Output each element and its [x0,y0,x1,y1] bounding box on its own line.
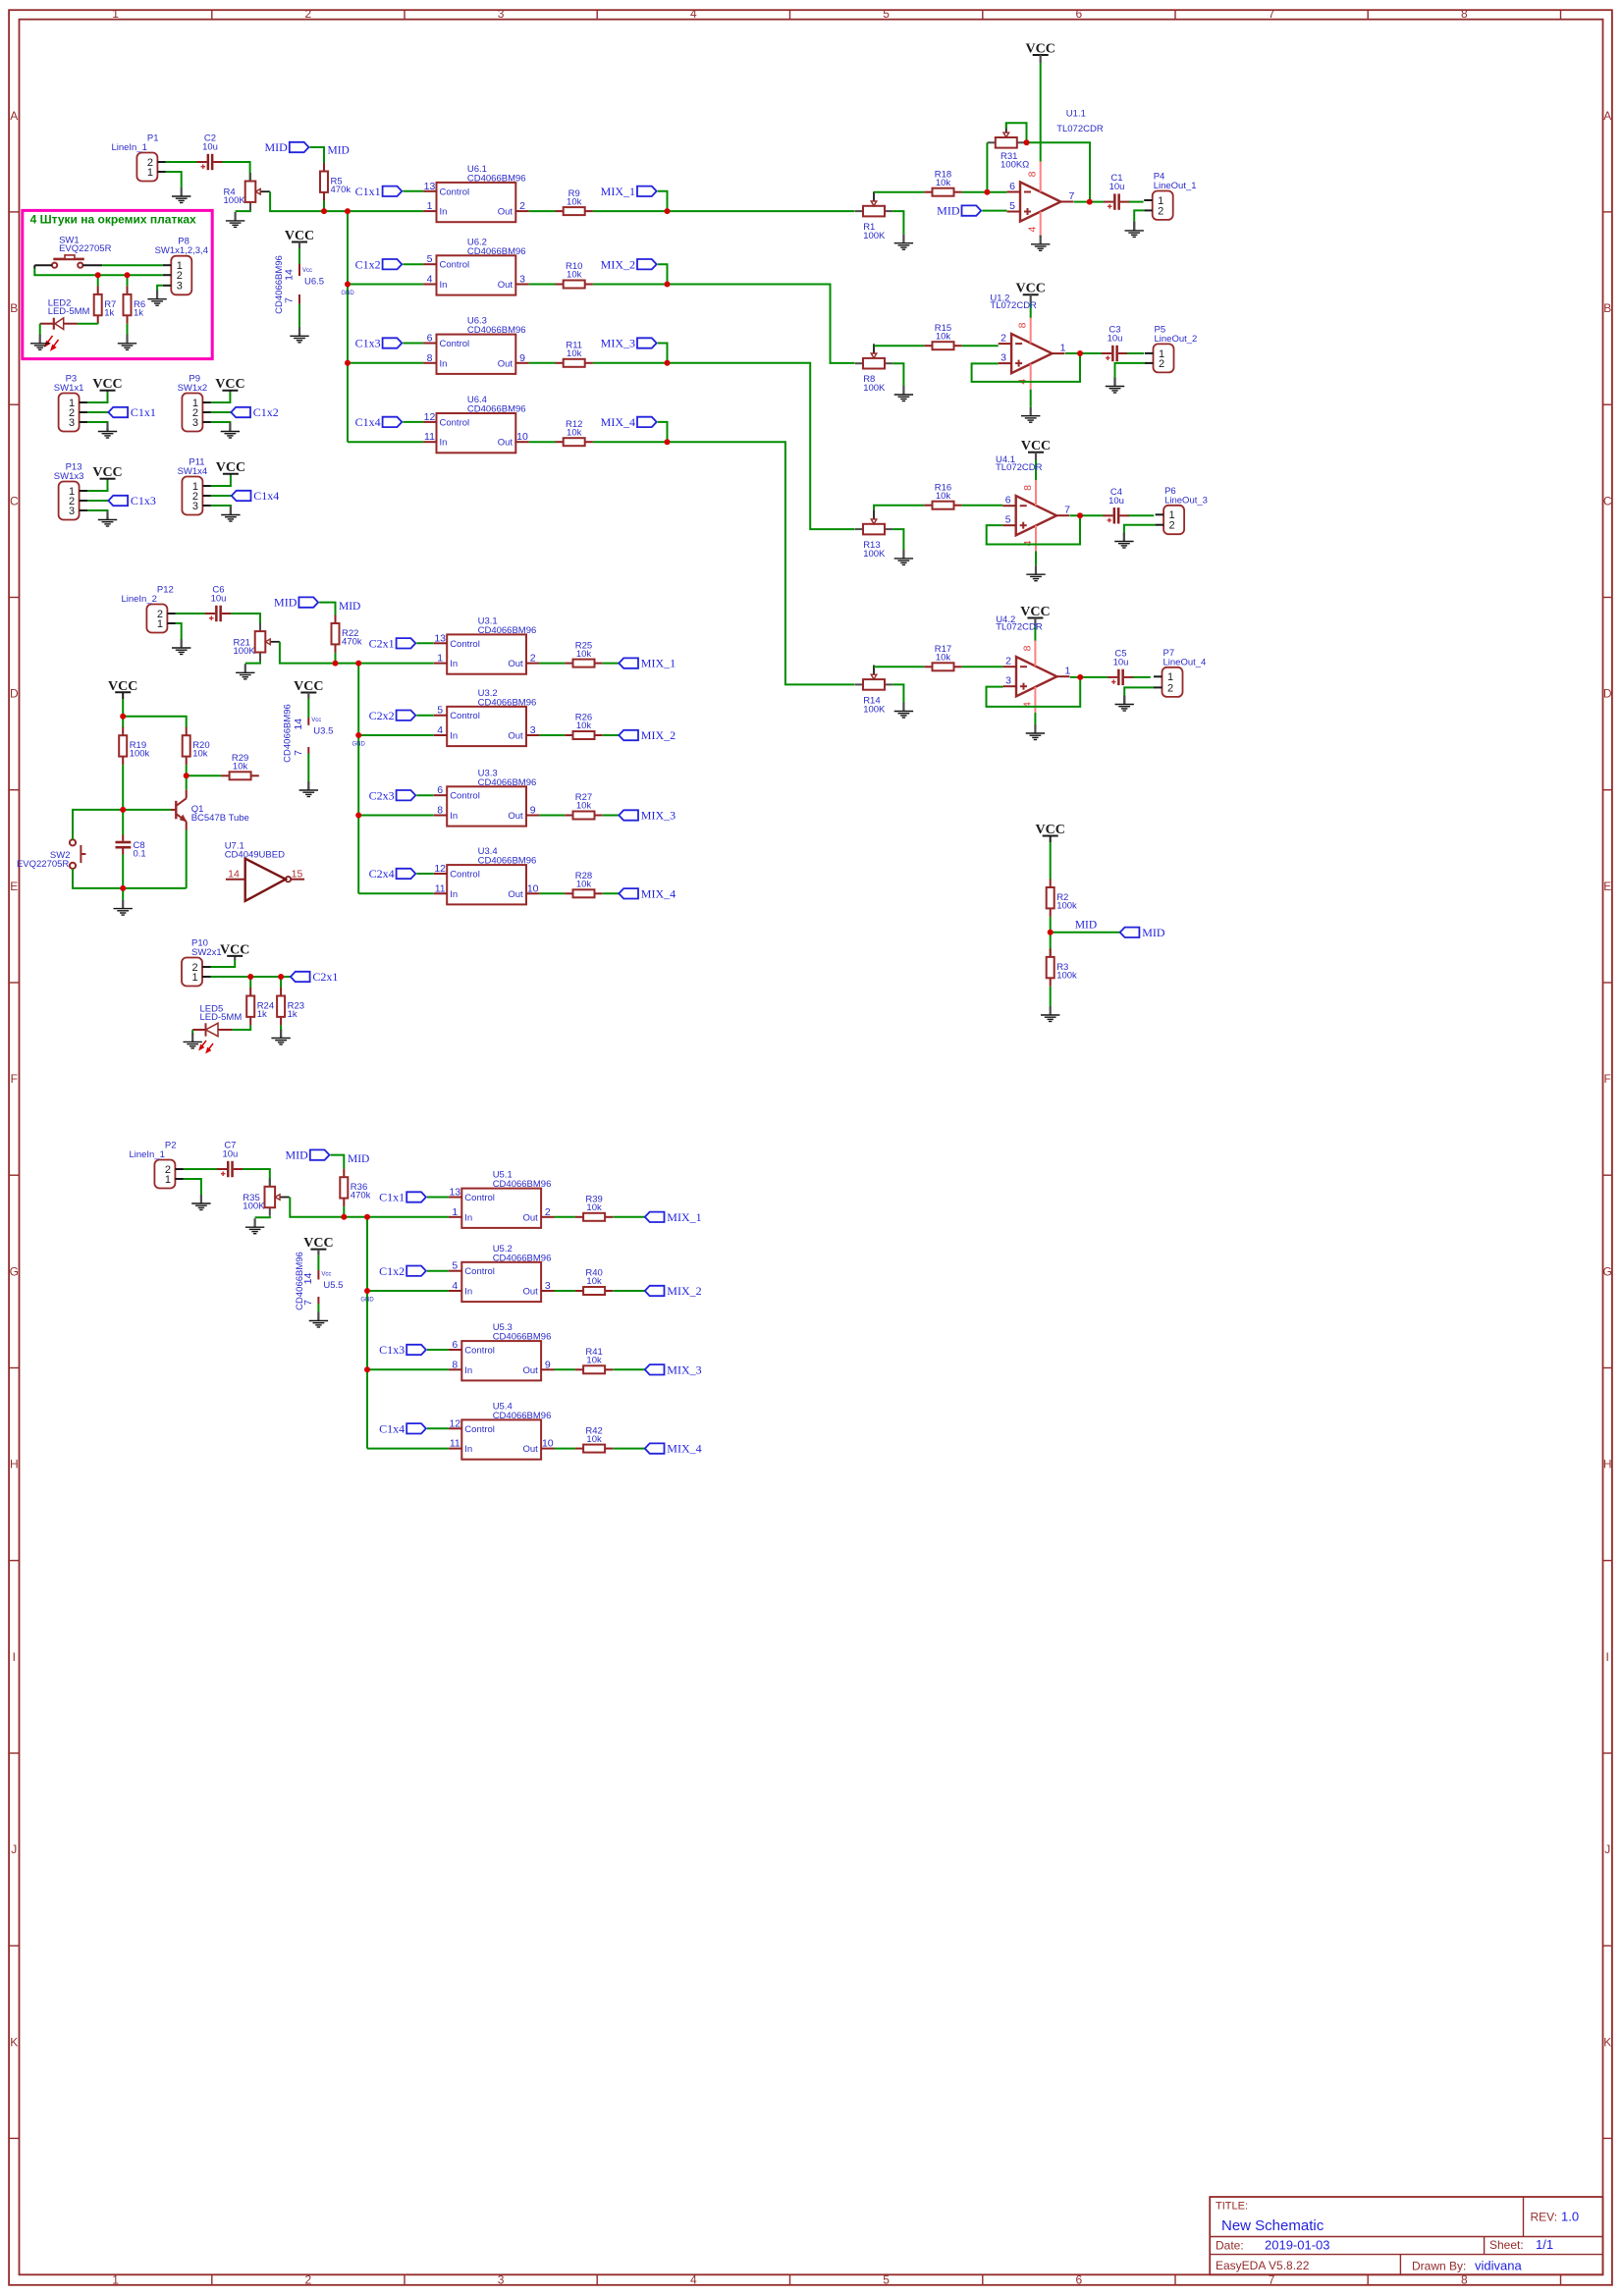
svg-text:Out: Out [522,1212,538,1223]
svg-text:C1x1: C1x1 [355,185,381,198]
net flag C1x2 control [355,257,403,271]
svg-text:Out: Out [522,1444,538,1455]
svg-text:2: 2 [1158,205,1163,217]
svg-text:D: D [10,687,19,701]
svg-text:1: 1 [112,7,119,21]
wire P1 pin1 to ground [166,172,182,187]
wire base node to C8 [122,810,124,835]
ground P7 [1115,696,1134,712]
svg-text:MIX_2: MIX_2 [667,1284,701,1298]
svg-text:Control: Control [450,711,480,721]
resistor R7 [94,286,117,323]
wire P11 pin3 to ground [211,506,231,511]
wire junction to R29 [187,774,222,776]
P11 gnd stub [230,511,232,515]
svg-text:100K: 100K [863,549,886,560]
net name GND small s2 [352,742,366,748]
svg-text:3: 3 [519,274,525,286]
junction bus s2 row2 [355,732,361,738]
wire C1x3 to U5.3 Control [427,1349,449,1351]
ground R13 [894,550,913,565]
connector P1 [111,133,165,182]
svg-text:7: 7 [1269,7,1275,21]
junction R29 [184,773,189,778]
wire U6.2 Out to R10 [529,284,556,286]
svg-text:2: 2 [305,7,312,21]
wire MIX_2 row to R8 [668,285,855,363]
connector P4 [1144,172,1196,220]
svg-text:BC547B Tube: BC547B Tube [191,813,249,824]
svg-text:14: 14 [293,719,304,730]
net flag MIX_2 s2 [619,728,676,742]
wire U5.1 Out to R39 [555,1216,575,1218]
net flag MIX_1 s3 [645,1210,702,1224]
wire base node to Q1 [123,809,171,811]
svg-text:TL072CDR: TL072CDR [996,462,1043,473]
wire R11 to MIX junction [593,362,668,364]
svg-text:Vcc: Vcc [321,1272,331,1278]
wire bus to U6.4 In [348,441,423,443]
ground P8 [147,291,166,306]
wire VCC U1.2 [1030,294,1032,318]
net name GND small s3 [360,1298,374,1304]
wire SW1 left to P8 pin2 [34,269,163,276]
svg-text:5: 5 [1009,200,1015,212]
svg-text:2: 2 [1169,520,1175,532]
junction U1.1 output [1087,199,1093,205]
svg-text:100KΩ: 100KΩ [1000,160,1029,171]
resistor R16 [924,482,961,508]
wire U5.2 Out to R40 [555,1290,575,1292]
wire bus to U5.2 In [367,1290,449,1292]
svg-text:Date:: Date: [1216,2239,1244,2253]
net flag MID section3 [285,1148,329,1162]
net flag C1x2 from P9 [231,405,279,419]
svg-text:5: 5 [883,7,890,21]
wire C5 to P7 [1133,676,1151,678]
potentiometer R1 [855,191,892,241]
wire C8 to bottom rail [122,855,124,888]
wire R3 to ground [1050,987,1052,1006]
analog switch U6.2 CD4066BM96 [423,237,529,294]
wire MIX_2 flag drop [658,264,668,284]
svg-text:8: 8 [1021,645,1033,651]
ground P6 [1114,533,1133,549]
wire U1.1 pin4 to ground [1040,236,1042,238]
svg-text:LineOut_2: LineOut_2 [1155,334,1198,345]
svg-text:MID: MID [1075,920,1097,932]
wire R35 to ground [255,1216,270,1218]
VCC P9 [215,377,244,392]
capacitor C6 [205,585,232,622]
svg-text:A: A [1603,109,1611,123]
svg-text:CD4066BM96: CD4066BM96 [467,404,526,415]
wire R35 wiper to U5.1 In [290,1198,449,1217]
svg-text:4: 4 [690,7,697,21]
wire C1 to P4 [1129,201,1144,203]
ground R14 [894,703,913,719]
svg-text:Out: Out [508,889,523,900]
svg-text:12: 12 [424,411,436,423]
svg-text:GND: GND [352,742,366,748]
svg-text:P2: P2 [165,1141,177,1151]
title block [1210,2197,1602,2274]
svg-text:Control: Control [440,417,470,428]
wire P13 pin2 to C1x3 [87,500,108,502]
svg-text:1.0: 1.0 [1561,2210,1579,2224]
resistor R5 [320,163,351,200]
VCC P3 [92,377,122,392]
svg-text:P1: P1 [147,133,159,144]
wire R6 to ground [127,324,129,336]
connector P12 [121,585,175,633]
svg-text:1/1: 1/1 [1536,2237,1553,2252]
wire R13 wiper to R16 [874,506,924,510]
junction MIX_1 [665,208,671,214]
wire R14 to ground [892,684,903,702]
svg-text:CD4066BM96: CD4066BM96 [467,173,526,184]
wire U1.2 feedback loop [972,353,1080,382]
svg-text:10k: 10k [586,1434,602,1445]
wire C7 to R35 [243,1169,270,1187]
wire P2 pin1 to ground [184,1179,201,1195]
svg-text:CD4066BM96: CD4066BM96 [467,325,526,336]
svg-text:TL072CDR: TL072CDR [996,622,1043,633]
ground R21 [236,664,254,679]
VCC for U3.5 [294,679,323,694]
svg-text:10u: 10u [1113,657,1129,667]
svg-text:100k: 100k [1056,970,1077,981]
svg-text:10k: 10k [576,801,592,812]
svg-text:8: 8 [452,1359,458,1370]
svg-text:G: G [10,1264,19,1278]
svg-text:CD4066BM96: CD4066BM96 [282,704,293,763]
wire C6 to R21 [231,614,260,631]
net flag C1x1 from P3 [108,405,156,419]
wire P4 pin2 down [1134,210,1144,221]
svg-text:MIX_2: MIX_2 [601,257,635,271]
junction U4.1 output [1077,512,1083,518]
wire R13 to ground [892,529,903,550]
svg-text:11: 11 [435,882,446,894]
wire rail to ground [122,888,124,900]
ground U1.2 [1021,407,1040,423]
connector P6 [1156,486,1208,534]
svg-text:CD4066BM96: CD4066BM96 [478,777,537,788]
svg-text:10k: 10k [233,762,248,773]
wire U1.2 out to C3 [1065,352,1102,354]
svg-text:MIX_1: MIX_1 [601,185,635,198]
svg-text:CD4066BM96: CD4066BM96 [478,856,537,867]
wire R31 left to pin6 node [986,142,988,191]
ground R1 [894,235,913,250]
op-amp U1.1 TL072CDR [1007,108,1104,237]
svg-text:SW1x3: SW1x3 [54,471,84,482]
svg-text:10u: 10u [222,1149,238,1160]
svg-text:5: 5 [1005,514,1011,526]
svg-text:3: 3 [498,7,505,21]
net flag C1x1 control [355,185,403,198]
svg-text:G: G [1603,1264,1612,1278]
P9 gnd stub [229,428,231,432]
svg-text:2: 2 [545,1206,551,1218]
wire R19 bottom to base node [122,765,124,810]
net flag C1x4 from P11 [232,489,280,503]
analog switch U3.1 CD4066BM96 [434,615,540,673]
ground U4.1 [1026,565,1045,581]
VCC U1.1 [1026,42,1055,57]
P3 gnd stub [106,428,108,432]
svg-text:10k: 10k [567,196,582,207]
VCC U1.2 [1016,282,1046,296]
wire R12 to MIX junction [593,441,668,443]
analog switch U5.2 CD4066BM96 [449,1244,555,1302]
VCC P10 [220,942,249,957]
wire U1.1 out to C1 [1074,201,1104,203]
svg-text:MID: MID [1142,926,1165,939]
ground R6 [118,335,136,350]
wire R1 to ground [892,211,903,235]
wire bus to U5.4 In [367,1448,449,1450]
svg-text:15: 15 [292,869,303,881]
svg-text:LineOut_4: LineOut_4 [1163,657,1207,667]
svg-text:9: 9 [519,352,525,364]
wire to R24 [249,977,251,988]
wire control bus down s3 [366,1217,368,1449]
ground U3.5 [299,781,318,797]
wire R27 to MIX_3 [603,815,620,817]
wire bus to U6.3 In [348,362,423,364]
net flag MIX_2 s3 [645,1284,702,1298]
resistor R23 [277,988,304,1025]
U6.5 pin 14 Vcc [284,264,313,281]
LED LED2 LED-5MM [40,298,90,350]
wire MID to R5 [310,147,324,163]
net flag C1x3 control s3 [379,1343,426,1357]
wire MIX_3 flag drop [658,344,668,363]
svg-text:TL072CDR: TL072CDR [1056,124,1104,134]
VCC P11 stub [230,474,232,476]
label U5.5 [323,1280,343,1291]
svg-text:MIX_2: MIX_2 [641,728,676,742]
svg-text:4: 4 [1027,227,1039,233]
svg-text:3: 3 [1005,675,1011,687]
svg-text:Control: Control [464,1266,495,1277]
svg-text:LineIn_1: LineIn_1 [111,142,146,153]
wire C3 to P5 [1127,352,1144,354]
wire R18 to U1.1 pin6 [962,191,1007,193]
svg-text:LED-5MM: LED-5MM [200,1012,243,1023]
ground P4 [1125,222,1144,238]
net flag C1x3 control [355,337,403,350]
wire U6.3 Out to R11 [529,362,556,364]
svg-text:13: 13 [449,1187,460,1199]
resistor R19 [119,727,149,765]
svg-text:Control: Control [450,639,480,650]
svg-text:1: 1 [1060,343,1066,354]
svg-text:10k: 10k [567,427,582,438]
wire VCC U6.5 [298,242,300,265]
resistor R3 [1047,948,1077,986]
svg-text:MID: MID [937,204,960,218]
note box 4 pieces on separate boards [23,210,212,358]
svg-text:C1x3: C1x3 [355,337,381,350]
wire VCC to R2 [1050,836,1052,880]
svg-text:TL072CDR: TL072CDR [990,300,1037,311]
svg-text:4: 4 [452,1280,458,1292]
svg-text:10u: 10u [211,594,227,605]
net flag MIX_1 s2 [619,657,676,670]
svg-text:100k: 100k [1056,900,1077,911]
wire VCC U4.1 [1035,453,1037,481]
svg-text:6: 6 [1076,7,1083,21]
svg-text:2: 2 [1000,333,1006,345]
resistor R26 [565,713,602,739]
note text [30,213,196,227]
junction bus branch [345,208,351,214]
wire MID to U1.1 pin5 [982,210,1006,212]
resistor R17 [924,644,961,670]
junction MIX_2 [665,282,671,288]
R23 gnd stub [280,1035,282,1039]
svg-text:10k: 10k [576,721,592,731]
svg-text:2: 2 [305,2272,312,2286]
svg-text:C1x2: C1x2 [355,257,381,271]
svg-text:C1x1: C1x1 [379,1191,405,1204]
wire LED5 to ground [191,1030,193,1035]
svg-text:Control: Control [440,260,470,271]
wire U5.4 Out to R42 [555,1448,575,1450]
svg-text:1k: 1k [104,307,114,318]
wire R31 to output [1027,142,1091,201]
svg-text:I: I [13,1650,16,1664]
svg-text:Out: Out [508,811,523,822]
svg-text:CD4049UBED: CD4049UBED [225,849,285,860]
analog switch U6.4 CD4066BM96 [423,395,529,453]
analog switch U3.3 CD4066BM96 [434,768,540,826]
svg-text:1: 1 [427,200,433,212]
LED LED5 LED-5MM [192,1003,242,1052]
svg-text:In: In [450,731,458,742]
wire C4 to P6 [1129,514,1155,516]
wire P12 pin2 to C6 [176,613,206,614]
junction R6 top [125,272,131,278]
label CD4066BM96 U6.5 [274,255,285,314]
wire C2 to R4 top [223,162,250,182]
resistor R36 [340,1169,370,1206]
svg-text:C1x2: C1x2 [379,1264,405,1278]
pushbutton SW2 EVQ22705R [17,839,85,870]
VCC P13 [92,465,122,480]
svg-text:3: 3 [177,281,183,293]
junction R19 top [120,714,126,720]
analog switch U5.3 CD4066BM96 [449,1322,555,1380]
wire R25 to MIX_1 [603,663,620,665]
svg-text:CD4066BM96: CD4066BM96 [478,625,537,636]
svg-text:EVQ22705R: EVQ22705R [59,243,111,254]
net flag MIX_4 s3 [645,1442,702,1456]
svg-text:J: J [11,1842,17,1856]
wire C1x1 to U6.1 Control [403,190,423,192]
wire SW1 right to P8 pin1 [102,264,163,266]
net flag C2x1 control [369,636,416,650]
potentiometer R14 [855,666,892,716]
analog switch U3.4 CD4066BM96 [434,846,540,904]
svg-text:2019-01-03: 2019-01-03 [1265,2238,1330,2253]
svg-text:P12: P12 [157,585,174,596]
svg-text:MIX_1: MIX_1 [667,1210,701,1224]
svg-text:3: 3 [498,2272,505,2286]
svg-text:10k: 10k [936,178,951,188]
svg-text:7: 7 [1064,505,1070,516]
net flag C1x4 control s3 [379,1421,426,1435]
capacitor C3 [1102,325,1128,362]
wire P3 pin2 to C1x1 [87,411,108,413]
ground P9 [221,423,240,439]
label U3.5 [313,725,333,736]
svg-text:8: 8 [1461,7,1468,21]
wire R15 to U1.2 pin2 [962,345,999,347]
wire R10 to MIX junction [593,284,668,286]
svg-text:CD4066BM96: CD4066BM96 [493,1253,552,1263]
svg-text:In: In [450,659,458,669]
VCC for U5.5 [303,1236,333,1251]
svg-text:In: In [464,1365,472,1376]
svg-text:In: In [464,1212,472,1223]
U5.5 pin 7 GND [302,1297,319,1306]
junction R36/bus [341,1214,347,1220]
svg-text:U1.1: U1.1 [1066,108,1086,119]
svg-text:5: 5 [452,1260,458,1272]
ground P2 [191,1195,210,1210]
wire C2x4 to U3.4 Control [416,873,433,875]
svg-text:10k: 10k [586,1356,602,1366]
svg-text:13: 13 [424,181,436,192]
svg-text:100K: 100K [863,231,886,241]
ground U5.5 [309,1312,328,1328]
svg-text:100K: 100K [863,704,886,715]
svg-text:New Schematic: New Schematic [1221,2217,1325,2234]
analog switch U5.1 CD4066BM96 [449,1170,555,1228]
svg-text:3: 3 [192,417,198,429]
wire VCC U5.5 [317,1250,319,1270]
svg-text:10k: 10k [576,649,592,660]
wire U4.1 feedback loop [987,515,1080,544]
label CD4066BM96 U3.5 [282,704,293,763]
connector P8 [155,237,208,295]
wire U3.4 Out to R28 [539,892,565,894]
svg-text:LineIn_1: LineIn_1 [129,1149,164,1160]
resistor R9 [556,188,593,215]
svg-text:8: 8 [1022,485,1034,491]
svg-text:3: 3 [545,1280,551,1292]
junction U1.2 output [1077,350,1083,356]
wire R14 wiper to R17 [874,666,924,667]
potentiometer R21 [234,623,280,661]
svg-text:C2x1: C2x1 [369,636,395,650]
svg-text:U3.5: U3.5 [313,725,333,736]
svg-text:100K: 100K [224,195,246,206]
wire MID to R22 [319,603,335,615]
potentiometer R8 [855,344,892,394]
wire U4.2 pin4 to ground [1034,713,1036,724]
junction MIX_3 [665,360,671,366]
label CD4066BM96 U5.5 [295,1252,305,1310]
svg-text:5: 5 [427,253,433,265]
resistor R12 [556,419,593,446]
connector P11 [178,457,211,515]
svg-text:10u: 10u [202,142,218,153]
